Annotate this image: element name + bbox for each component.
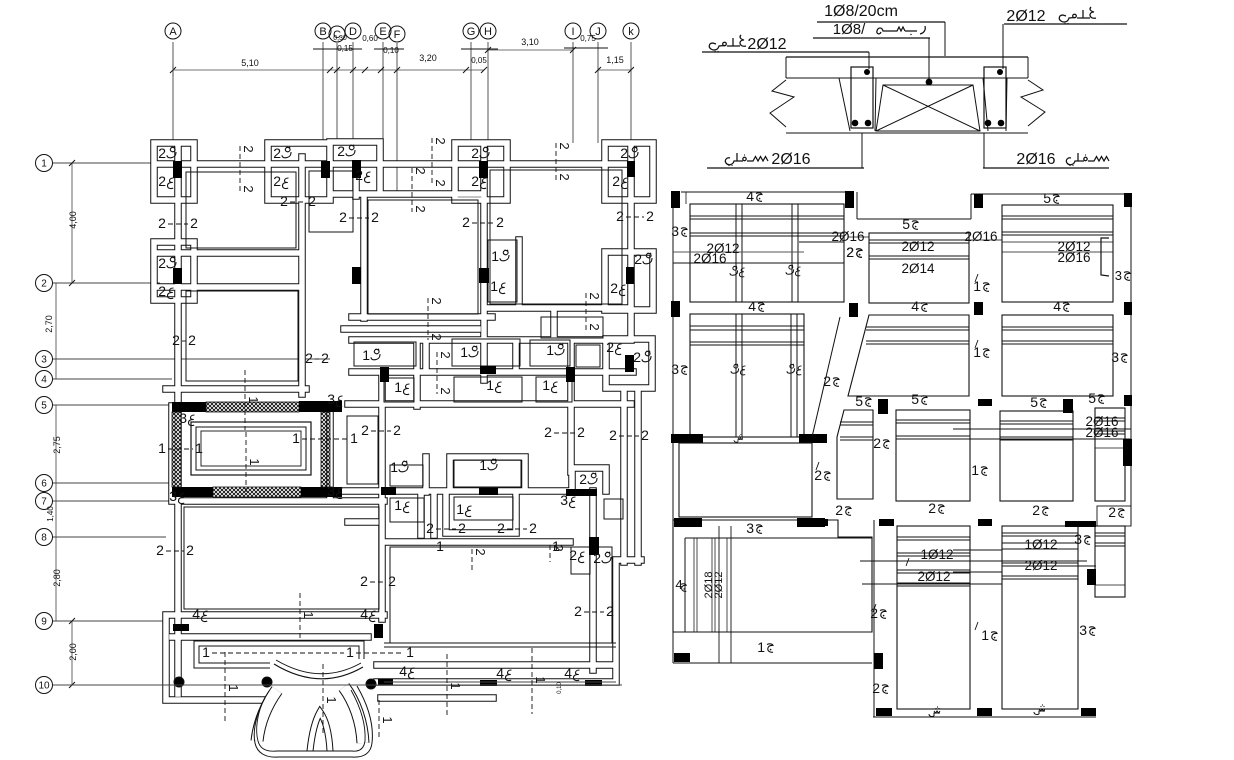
svg-text:4: 4 — [1053, 298, 1061, 314]
svg-text:2: 2 — [438, 351, 453, 358]
svg-text:2: 2 — [609, 427, 617, 443]
svg-text:2: 2 — [393, 422, 401, 438]
svg-text:2: 2 — [462, 214, 470, 230]
svg-text:2: 2 — [158, 283, 166, 299]
svg-text:2Ø12: 2Ø12 — [713, 572, 725, 599]
svg-text:3: 3 — [1111, 349, 1119, 365]
svg-text:D: D — [349, 26, 357, 38]
svg-text:1: 1 — [490, 278, 498, 294]
svg-text:1: 1 — [195, 440, 203, 456]
svg-text:.: . — [737, 364, 740, 375]
svg-text:2Ø16: 2Ø16 — [1085, 425, 1118, 440]
svg-text:0,10: 0,10 — [557, 682, 563, 694]
svg-text:0,75: 0,75 — [580, 34, 596, 43]
svg-text:2: 2 — [429, 333, 444, 340]
svg-text:1: 1 — [436, 538, 444, 554]
svg-text:1Ø12: 1Ø12 — [1024, 537, 1057, 552]
svg-text:0,05: 0,05 — [471, 56, 487, 65]
svg-text:2: 2 — [188, 332, 196, 348]
svg-text:2: 2 — [633, 349, 641, 365]
svg-text:2: 2 — [579, 471, 587, 487]
svg-text:2: 2 — [587, 323, 602, 330]
svg-text:2,75: 2,75 — [52, 436, 62, 454]
svg-text:2: 2 — [1032, 502, 1040, 518]
svg-text:2: 2 — [1108, 504, 1116, 520]
svg-text:5: 5 — [41, 401, 47, 412]
svg-text:4: 4 — [399, 663, 407, 679]
svg-text:J: J — [595, 26, 601, 38]
svg-text:2: 2 — [41, 279, 47, 290]
svg-text:2Ø16: 2Ø16 — [693, 251, 726, 266]
svg-text:2: 2 — [870, 605, 878, 621]
svg-text:4: 4 — [746, 188, 754, 204]
svg-text:2: 2 — [156, 542, 164, 558]
svg-text:5,10: 5,10 — [241, 58, 259, 68]
svg-text:2: 2 — [497, 520, 505, 536]
svg-text:.: . — [736, 266, 739, 277]
svg-text:2: 2 — [388, 573, 396, 589]
svg-text:5: 5 — [902, 216, 910, 232]
svg-text:1: 1 — [460, 344, 468, 360]
svg-text:4,00: 4,00 — [68, 211, 78, 229]
svg-text:1: 1 — [973, 278, 981, 294]
svg-text:2: 2 — [273, 173, 281, 189]
svg-text:2: 2 — [620, 145, 628, 161]
svg-text:4: 4 — [360, 606, 368, 622]
svg-text:2: 2 — [835, 502, 843, 518]
svg-text:5: 5 — [1088, 390, 1096, 406]
svg-text:.: . — [792, 265, 795, 276]
svg-text:1: 1 — [246, 396, 261, 403]
svg-text:2Ø16: 2Ø16 — [1016, 151, 1055, 168]
svg-text:2: 2 — [606, 603, 614, 619]
svg-text:3,10: 3,10 — [521, 37, 539, 47]
svg-text:2: 2 — [458, 520, 466, 536]
svg-text:2: 2 — [577, 424, 585, 440]
svg-text:3: 3 — [327, 483, 335, 499]
svg-text:2: 2 — [438, 387, 453, 394]
svg-text:3: 3 — [41, 355, 47, 366]
svg-text:1: 1 — [226, 684, 241, 691]
svg-text:10: 10 — [38, 681, 50, 692]
svg-text:1: 1 — [479, 457, 487, 473]
svg-text:4: 4 — [564, 665, 572, 681]
svg-text:2: 2 — [814, 467, 822, 483]
svg-text:4: 4 — [192, 606, 200, 622]
svg-text:2: 2 — [241, 185, 256, 192]
svg-text:I: I — [571, 26, 574, 38]
svg-text:1: 1 — [350, 430, 358, 446]
svg-text:1: 1 — [247, 458, 262, 465]
svg-text:0,15: 0,15 — [337, 44, 353, 53]
svg-text:1: 1 — [552, 538, 560, 554]
svg-text:5: 5 — [911, 391, 919, 407]
svg-text:2Ø12: 2Ø12 — [1024, 558, 1057, 573]
svg-text:2: 2 — [158, 215, 166, 231]
svg-text:2Ø14: 2Ø14 — [901, 261, 935, 276]
svg-text:1: 1 — [394, 379, 402, 395]
svg-text:2: 2 — [641, 427, 649, 443]
svg-text:2: 2 — [186, 542, 194, 558]
svg-text:2: 2 — [873, 435, 881, 451]
svg-text:2: 2 — [593, 550, 601, 566]
svg-text:3: 3 — [1079, 622, 1087, 638]
svg-text:3,20: 3,20 — [419, 53, 437, 63]
svg-text:2: 2 — [158, 255, 166, 271]
svg-text:G: G — [467, 26, 476, 38]
svg-text:1: 1 — [981, 627, 989, 643]
svg-text:2: 2 — [158, 173, 166, 189]
svg-text:2Ø16: 2Ø16 — [831, 229, 864, 244]
svg-text:4: 4 — [911, 298, 919, 314]
svg-text:3: 3 — [671, 223, 679, 239]
svg-text:2: 2 — [413, 167, 428, 174]
svg-text:2: 2 — [305, 350, 313, 366]
svg-text:0,10: 0,10 — [383, 46, 399, 55]
svg-text:2Ø16: 2Ø16 — [1057, 250, 1090, 265]
svg-text:2: 2 — [433, 137, 448, 144]
svg-text:2: 2 — [610, 280, 618, 296]
svg-text:H: H — [484, 26, 492, 38]
svg-text:1: 1 — [486, 377, 494, 393]
svg-text:2: 2 — [872, 680, 880, 696]
svg-text:1: 1 — [346, 644, 354, 660]
svg-text:2: 2 — [606, 339, 614, 355]
svg-text:2: 2 — [574, 603, 582, 619]
svg-text:2: 2 — [433, 179, 448, 186]
svg-text:2: 2 — [557, 142, 572, 149]
svg-text:2: 2 — [190, 215, 198, 231]
svg-text:2: 2 — [158, 145, 166, 161]
svg-text:3: 3 — [1074, 531, 1082, 547]
svg-text:2: 2 — [529, 520, 537, 536]
svg-text:1Ø8/20cm: 1Ø8/20cm — [824, 3, 898, 20]
svg-text:2: 2 — [371, 209, 379, 225]
svg-text:2: 2 — [321, 350, 329, 366]
svg-text:2: 2 — [273, 145, 281, 161]
svg-text:2Ø16: 2Ø16 — [964, 229, 997, 244]
svg-text:0,60: 0,60 — [362, 34, 378, 43]
svg-text:1: 1 — [390, 459, 398, 475]
svg-text:2: 2 — [337, 143, 345, 159]
svg-text:2Ø12: 2Ø12 — [917, 569, 950, 584]
svg-text:1: 1 — [324, 696, 339, 703]
svg-text:0,30: 0,30 — [333, 35, 347, 42]
svg-text:1: 1 — [542, 377, 550, 393]
svg-text:1: 1 — [757, 639, 765, 655]
svg-text:2: 2 — [429, 297, 444, 304]
svg-text:1: 1 — [406, 644, 414, 660]
svg-text:2: 2 — [634, 251, 642, 267]
svg-text:1: 1 — [301, 611, 316, 618]
svg-text:2: 2 — [616, 208, 624, 224]
svg-text:1: 1 — [158, 440, 166, 456]
svg-text:3: 3 — [327, 391, 335, 407]
svg-text:2: 2 — [241, 145, 256, 152]
svg-text:5: 5 — [855, 393, 863, 409]
svg-text:3: 3 — [560, 492, 568, 508]
svg-text:2: 2 — [823, 373, 831, 389]
svg-text:.: . — [793, 364, 796, 375]
svg-text:2: 2 — [569, 547, 577, 563]
svg-text:2: 2 — [646, 208, 654, 224]
svg-text:4: 4 — [41, 375, 47, 386]
svg-text:8: 8 — [41, 533, 47, 544]
svg-text:1: 1 — [971, 462, 979, 478]
svg-text:2Ø12: 2Ø12 — [747, 36, 786, 53]
svg-text:2: 2 — [471, 145, 479, 161]
svg-text:2: 2 — [361, 422, 369, 438]
svg-text:7: 7 — [41, 497, 47, 508]
svg-text:1: 1 — [456, 501, 464, 517]
svg-text:1: 1 — [41, 159, 47, 170]
svg-text:2,70: 2,70 — [44, 315, 54, 333]
svg-text:2: 2 — [846, 244, 854, 260]
svg-text:2: 2 — [426, 520, 434, 536]
svg-text:1: 1 — [448, 682, 463, 689]
svg-text:6: 6 — [41, 479, 47, 490]
svg-text:2: 2 — [360, 573, 368, 589]
svg-text:2: 2 — [355, 167, 363, 183]
svg-text:1: 1 — [292, 430, 300, 446]
svg-text:k: k — [628, 26, 634, 38]
svg-text:2: 2 — [280, 193, 288, 209]
svg-text:B: B — [319, 26, 326, 38]
svg-text:1,40: 1,40 — [46, 506, 55, 522]
svg-text:4: 4 — [748, 298, 756, 314]
svg-text:1: 1 — [546, 342, 554, 358]
svg-text:2: 2 — [308, 193, 316, 209]
svg-text:1: 1 — [362, 347, 370, 363]
svg-text:9: 9 — [41, 617, 47, 628]
svg-text:F: F — [394, 29, 401, 41]
svg-text:3: 3 — [746, 520, 754, 536]
svg-text:2: 2 — [612, 173, 620, 189]
svg-text:2,00: 2,00 — [68, 643, 78, 661]
svg-text:1Ø12: 1Ø12 — [920, 547, 953, 562]
svg-text:5: 5 — [1030, 394, 1038, 410]
svg-text:2Ø16: 2Ø16 — [771, 151, 810, 168]
svg-text:2: 2 — [496, 214, 504, 230]
svg-text:2: 2 — [557, 173, 572, 180]
svg-text:2Ø12: 2Ø12 — [901, 239, 934, 254]
svg-text:1,15: 1,15 — [606, 55, 624, 65]
svg-text:3: 3 — [671, 361, 679, 377]
svg-text:2: 2 — [928, 500, 936, 516]
svg-text:2,80: 2,80 — [52, 569, 62, 587]
svg-text:3: 3 — [169, 488, 177, 504]
svg-text:2: 2 — [471, 173, 479, 189]
svg-text:3: 3 — [179, 410, 187, 426]
svg-text:2: 2 — [544, 424, 552, 440]
svg-text:2: 2 — [339, 209, 347, 225]
svg-text:1: 1 — [533, 676, 548, 683]
svg-text:3: 3 — [1115, 268, 1122, 283]
svg-text:A: A — [169, 26, 177, 38]
svg-text:1: 1 — [491, 248, 499, 264]
svg-text:4: 4 — [496, 665, 504, 681]
svg-text:2: 2 — [473, 548, 488, 555]
svg-text:1: 1 — [202, 644, 210, 660]
svg-text:1: 1 — [380, 716, 395, 723]
svg-text:1: 1 — [394, 497, 402, 513]
svg-text:2: 2 — [172, 332, 180, 348]
svg-text:2Ø12: 2Ø12 — [1006, 8, 1045, 25]
svg-text:2: 2 — [587, 292, 602, 299]
svg-text:5: 5 — [1043, 190, 1051, 206]
svg-text:1: 1 — [973, 344, 981, 360]
svg-text:E: E — [379, 26, 386, 38]
svg-text:1Ø8/: 1Ø8/ — [833, 21, 866, 38]
svg-text:2: 2 — [413, 205, 428, 212]
